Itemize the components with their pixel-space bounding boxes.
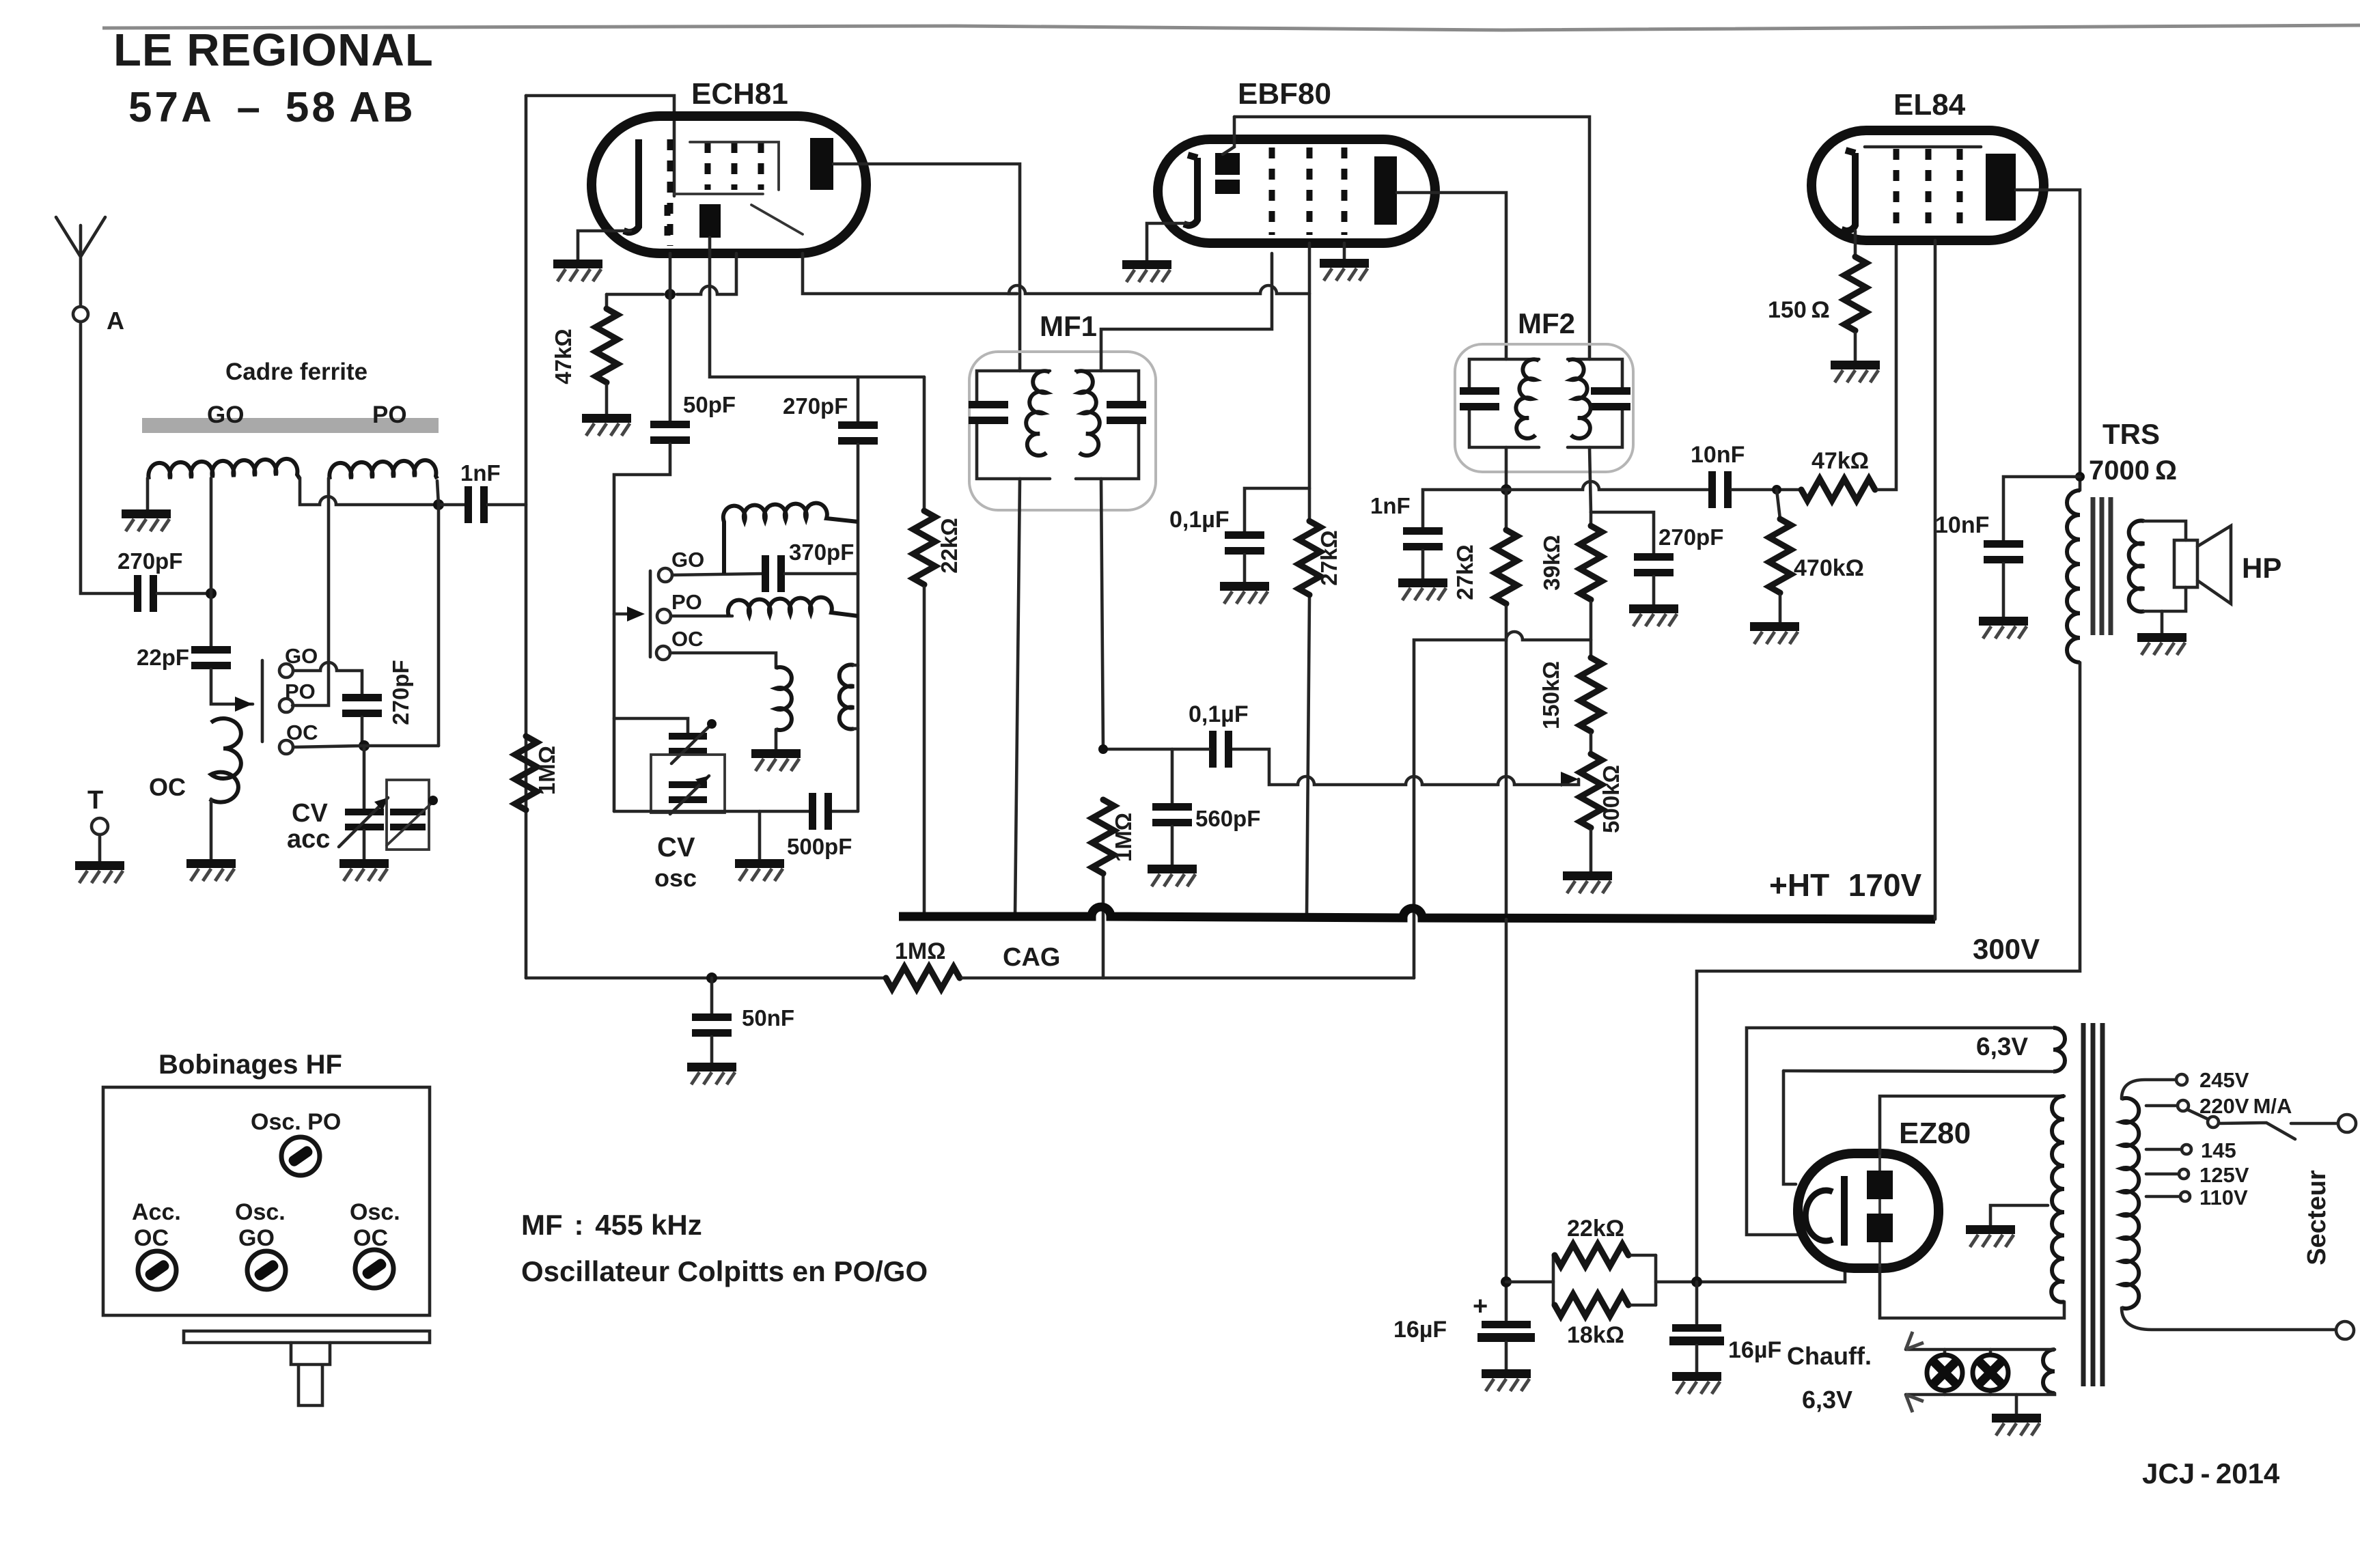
wire EL84 anode to TRS bbox=[2016, 190, 2080, 490]
wire to ground bbox=[2002, 563, 2005, 617]
wire +HT bus 170V bbox=[899, 907, 1935, 919]
trimmer Osc GO bbox=[247, 1251, 286, 1289]
svg-text:GO: GO bbox=[238, 1225, 275, 1251]
svg-text:300V: 300V bbox=[1973, 933, 2040, 965]
terminal GO (osc) bbox=[658, 568, 672, 582]
svg-text:1nF: 1nF bbox=[1370, 493, 1411, 518]
svg-text:+: + bbox=[1473, 1292, 1488, 1321]
wire 10nF tone tap bbox=[2003, 477, 2080, 540]
svg-text:TRS: TRS bbox=[2102, 418, 2160, 450]
svg-text:MF1: MF1 bbox=[1040, 310, 1097, 342]
svg-text:22kΩ: 22kΩ bbox=[1567, 1216, 1624, 1242]
svg-text:EZ80: EZ80 bbox=[1899, 1117, 1971, 1150]
ferrite bar bbox=[142, 418, 439, 433]
TRS core bbox=[2091, 497, 2096, 635]
svg-text:Osc.: Osc. bbox=[235, 1199, 286, 1225]
svg-text:27kΩ: 27kΩ bbox=[1316, 530, 1342, 586]
wire det line hop bbox=[1506, 481, 1708, 490]
capacitor 1nF (detector) bbox=[1403, 527, 1443, 550]
wire EL84 screen to HT bus bbox=[1934, 240, 1937, 919]
wire T to ground bbox=[98, 835, 102, 861]
chassis mounting plate bbox=[184, 1331, 430, 1343]
switch wiper arrow (band selector) bbox=[235, 697, 253, 712]
potentiometer 500kOhm bbox=[1589, 734, 1593, 754]
TRS secondary coil bbox=[2129, 521, 2144, 612]
wire EBF80 cathode to ground bbox=[1147, 223, 1189, 260]
svg-text:22pF: 22pF bbox=[137, 645, 189, 670]
wire MF2 primary bottom to junction bbox=[1505, 447, 1508, 490]
EL84 anode bbox=[1986, 154, 2016, 221]
svg-text:57A – 58 AB: 57A – 58 AB bbox=[128, 84, 416, 131]
trimmer Acc OC bbox=[138, 1251, 176, 1289]
svg-text:JCJ - 2014: JCJ - 2014 bbox=[2142, 1457, 2280, 1489]
wire 1nF top bbox=[1423, 490, 1506, 527]
ground (osc) bbox=[735, 859, 784, 881]
wire triode grid pin down to screen bus bbox=[803, 253, 1017, 294]
svg-text:OC: OC bbox=[353, 1225, 388, 1251]
resistor 150 Ohm (cathode) bbox=[1844, 257, 1866, 331]
ground (HV center tap) bbox=[1966, 1225, 2015, 1247]
ground (ECH81 cathode) bbox=[553, 260, 602, 281]
wire EZ80 heater leads to 6,3V loop bbox=[1747, 1028, 2053, 1235]
wire OC contact line bbox=[293, 746, 439, 747]
svg-text:MF : 455 kHz: MF : 455 kHz bbox=[521, 1209, 702, 1241]
tube EBF80 envelope bbox=[1158, 139, 1435, 243]
wire osc secondary to rail bbox=[854, 665, 858, 729]
ECH81 internal grid tie bar bbox=[674, 193, 763, 195]
ECH81 hexode anode bbox=[810, 138, 833, 190]
tap 245V bbox=[2122, 1080, 2176, 1099]
wire junction down to CV acc bbox=[363, 746, 366, 809]
wire secondary to speaker bbox=[2144, 521, 2186, 611]
antenna symbol bbox=[56, 217, 105, 305]
ECH81 screen grids (dashed) bbox=[705, 142, 711, 190]
svg-text:500kΩ: 500kΩ bbox=[1598, 765, 1624, 833]
contact PO bbox=[279, 699, 293, 712]
switch bar (osc section) bbox=[649, 571, 652, 657]
svg-text:10nF: 10nF bbox=[1691, 442, 1745, 468]
MF1 primary tank bbox=[969, 371, 1050, 479]
svg-text:OC: OC bbox=[134, 1225, 169, 1251]
wire EL84 cathode to 150R bbox=[1854, 231, 1857, 257]
svg-text:270pF: 270pF bbox=[388, 660, 413, 725]
svg-text:1MΩ: 1MΩ bbox=[534, 746, 559, 795]
tube EL84 envelope bbox=[1811, 130, 2044, 240]
svg-text:0,1µF: 0,1µF bbox=[1189, 701, 1249, 727]
svg-text:OC: OC bbox=[149, 773, 186, 801]
ground (TRS secondary) bbox=[2137, 633, 2187, 655]
svg-text:HP: HP bbox=[2242, 552, 2281, 584]
wire EBF80 diode bus to MF2 secondary bbox=[1234, 117, 1589, 359]
wire 270pF bottom to OC line junction bbox=[361, 717, 364, 744]
wire junction to 1nF bbox=[439, 503, 464, 507]
svg-text:Osc.: Osc. bbox=[350, 1199, 400, 1225]
Secteur terminal top bbox=[2338, 1115, 2356, 1132]
capacitor 270pF (osc anode) bbox=[838, 421, 878, 445]
ground (0,1uF screen) bbox=[1220, 582, 1269, 604]
svg-text:110V: 110V bbox=[2199, 1186, 2248, 1209]
capacitor 270pF (detector) bbox=[1634, 553, 1674, 576]
wire 270pF tap bbox=[857, 377, 860, 421]
capacitor 500pF bbox=[809, 793, 832, 830]
ground (270pF det) bbox=[1629, 604, 1678, 626]
wire volume wiper line with hops bbox=[1232, 749, 1579, 785]
ground (heater) bbox=[1992, 1414, 2041, 1436]
capacitor 22pF bbox=[191, 646, 231, 669]
wire GO term to 370pF bbox=[672, 574, 762, 575]
MF2 can outline bbox=[1455, 344, 1633, 472]
wire OC coil to ground bbox=[210, 799, 213, 859]
wire 1nF to left rail bbox=[488, 503, 526, 507]
wire GO center tap down bbox=[210, 478, 213, 646]
svg-text:CV: CV bbox=[657, 832, 695, 863]
node 50nF junction bbox=[706, 972, 717, 983]
coil osc PO bbox=[671, 615, 732, 618]
svg-text:A: A bbox=[107, 307, 124, 335]
wire 150R to ground bbox=[1854, 333, 1857, 361]
svg-text:Chauff.: Chauff. bbox=[1787, 1342, 1872, 1370]
svg-text:1MΩ: 1MΩ bbox=[895, 938, 946, 964]
wire PO left end down (to PO switch contact) bbox=[292, 478, 329, 705]
trimmer Osc PO bbox=[281, 1137, 320, 1175]
resistor 18kOhm (filter) bbox=[1555, 1294, 1628, 1316]
coil OC (antenna) bbox=[210, 718, 241, 802]
wire primary bottom to Secteur bbox=[2122, 1308, 2335, 1330]
speaker HP bbox=[2174, 540, 2197, 587]
wire antenna down bbox=[81, 322, 134, 593]
resistor 47kOhm (grid stopper) bbox=[1801, 479, 1875, 501]
coil osc GO bbox=[723, 503, 858, 574]
ground (47k) bbox=[582, 414, 631, 436]
resistor 1MOhm (CAG) bbox=[886, 967, 960, 989]
wire 6,3V winding return bbox=[1783, 1071, 2053, 1072]
wire MF1 primary bottom to HT bus bbox=[1015, 479, 1020, 916]
EBF80 cathode bbox=[1184, 155, 1197, 225]
transformer TRS primary coil bbox=[2067, 490, 2080, 662]
svg-text:0,1µF: 0,1µF bbox=[1169, 507, 1230, 533]
wire 370pF to right rail bbox=[785, 572, 858, 576]
svg-text:245V: 245V bbox=[2199, 1068, 2249, 1092]
wire 22pF to switch arrow bbox=[211, 669, 253, 704]
wire OC term to osc transformer bbox=[670, 653, 776, 668]
resistor 150kOhm bbox=[1580, 658, 1602, 731]
svg-text:PO: PO bbox=[372, 402, 407, 428]
wire 39k to 150k junction bbox=[1589, 602, 1593, 658]
capacitor 370pF bbox=[762, 555, 785, 592]
wire HT feed down to filter bbox=[1505, 919, 1508, 1320]
resistor 39kOhm bbox=[1589, 512, 1593, 526]
wire 50pF down, jog left, down to osc rail bbox=[614, 444, 670, 811]
svg-text:270pF: 270pF bbox=[783, 393, 848, 419]
wire 47k top / g1 node bbox=[607, 293, 663, 296]
svg-text:LE REGIONAL: LE REGIONAL bbox=[113, 25, 434, 76]
wire 50nF stem bbox=[710, 978, 714, 1013]
svg-text:270pF: 270pF bbox=[117, 548, 182, 574]
EZ80 center pin line bbox=[1878, 1153, 1881, 1268]
wire triode anode pin down to 22k feed bbox=[710, 238, 924, 377]
svg-text:27kΩ: 27kΩ bbox=[1452, 544, 1477, 600]
CV osc frame bbox=[651, 755, 725, 813]
wire to ground bbox=[1243, 555, 1247, 582]
ground (470k) bbox=[1750, 622, 1799, 644]
scan artifact top border line bbox=[102, 25, 2360, 30]
svg-text:Bobinages HF: Bobinages HF bbox=[158, 1050, 342, 1080]
EZ80 cathode arc bbox=[1805, 1190, 1833, 1241]
ECH81 screen top tie bbox=[690, 142, 779, 190]
variable capacitor CV osc (top) bbox=[614, 718, 717, 764]
svg-text:Cadre ferrite: Cadre ferrite bbox=[225, 359, 367, 385]
capacitor 10nF (AF coupling) bbox=[1708, 471, 1732, 508]
wire right riser (OC line to 1nF junction) bbox=[437, 505, 441, 746]
wire EZ80 top pin to HV winding bbox=[1880, 1096, 2064, 1153]
svg-text:MF2: MF2 bbox=[1518, 307, 1575, 339]
Secteur terminal bottom bbox=[2336, 1321, 2354, 1339]
lamp (dial) 2 bbox=[1989, 1349, 1993, 1395]
wire MF1 secondary bottom down to CAG bbox=[1101, 479, 1103, 978]
wire CAG line bbox=[526, 977, 886, 980]
ground (560pF) bbox=[1148, 865, 1197, 886]
EL84 grids (dashed) bbox=[1893, 149, 1900, 225]
resistor 1MOhm (left rail) bbox=[515, 736, 537, 810]
ground (500k) bbox=[1563, 871, 1612, 893]
transformer HV winding bbox=[2051, 1096, 2064, 1302]
resistor 1MOhm (AGC) bbox=[1092, 800, 1114, 873]
wire osc OC primary to ground bbox=[775, 729, 778, 749]
capacitor 50pF bbox=[650, 421, 690, 444]
switch M/A lever bbox=[2188, 1110, 2337, 1139]
tap 145 bbox=[2146, 1148, 2181, 1151]
tap 220V with M/A switch bbox=[2146, 1104, 2178, 1108]
ground (OC coil) bbox=[186, 859, 236, 881]
ECH81 grid1 (dashed) bbox=[667, 139, 674, 246]
svg-text:EBF80: EBF80 bbox=[1238, 77, 1331, 111]
svg-text:Secteur: Secteur bbox=[2303, 1170, 2331, 1265]
wire CV acc to ground bbox=[363, 830, 366, 859]
wire heater ground stem bbox=[2015, 1395, 2018, 1414]
ground (150R) bbox=[1831, 361, 1880, 382]
EBF80 diode plates bbox=[1215, 153, 1240, 175]
heater winding (Chauff) bbox=[2043, 1349, 2055, 1393]
wire filter to EZ80 cathode bbox=[1656, 1264, 1845, 1282]
ground (GO coil) bbox=[122, 509, 171, 531]
svg-text:GO: GO bbox=[285, 644, 318, 668]
wire to ground bbox=[1652, 576, 1656, 604]
wire MF1 secondary top to EBF80 grid bbox=[1101, 253, 1272, 371]
wire 1nF to ground bbox=[1421, 550, 1425, 578]
resistor 27kOhm (screen) bbox=[1299, 521, 1320, 595]
EBF80 top pin wire bbox=[1223, 117, 1234, 154]
wire 0,1uF to AGC node bbox=[1103, 748, 1209, 751]
ECH81 triode grid diagonal tie bbox=[751, 205, 803, 234]
resistor 47kOhm (osc grid leak) bbox=[605, 294, 609, 309]
wire ground stem osc bbox=[758, 811, 762, 859]
wire 470k to ground bbox=[1779, 596, 1782, 622]
wire TRS primary bottom to 300V bbox=[1697, 662, 2080, 1282]
trimmer Osc OC bbox=[355, 1250, 393, 1288]
wire osc right rail bbox=[857, 445, 860, 811]
switch bar bbox=[261, 660, 264, 742]
svg-text:osc: osc bbox=[654, 864, 697, 892]
terminal PO (osc) bbox=[657, 609, 671, 623]
wire GO right end down and right with hop bbox=[300, 478, 439, 505]
svg-text:T: T bbox=[87, 786, 103, 815]
ECH81 triode grid dash + anode bbox=[665, 205, 671, 236]
svg-text:6,3V: 6,3V bbox=[1802, 1386, 1852, 1414]
coil PO (cadre) bbox=[329, 460, 437, 479]
wire heater bottom bbox=[1906, 1393, 2055, 1395]
svg-text:470kΩ: 470kΩ bbox=[1794, 555, 1864, 581]
capacitor 1nF (antenna coupling) bbox=[464, 486, 488, 523]
switch wiper arrow (osc section) bbox=[614, 613, 627, 616]
wire heater top bbox=[1906, 1348, 2055, 1352]
transformer primary winding bbox=[2122, 1098, 2139, 1308]
EL84 cathode bbox=[1842, 150, 1855, 231]
node junction 1nF bbox=[433, 499, 444, 510]
tap 125V bbox=[2146, 1173, 2178, 1176]
wire 500k to ground bbox=[1589, 830, 1593, 871]
wire divider junction left and down to CAG bbox=[1414, 632, 1591, 978]
svg-text:16µF: 16µF bbox=[1728, 1337, 1781, 1363]
node A terminal bbox=[73, 307, 88, 322]
ground (T) bbox=[75, 861, 124, 883]
ground (EBF80 cathode) bbox=[1122, 260, 1171, 282]
svg-text:39kΩ: 39kΩ bbox=[1539, 535, 1564, 591]
ECH81 cathode bbox=[624, 139, 639, 232]
resistor 22kOhm (osc anode feed) bbox=[923, 377, 926, 511]
wire 270pF to GO tap bbox=[157, 592, 211, 596]
EBF80 grids (dashed) bbox=[1269, 148, 1275, 235]
EZ80 anode plates bbox=[1867, 1171, 1893, 1199]
svg-text:500pF: 500pF bbox=[787, 834, 852, 859]
svg-text:220V M/A: 220V M/A bbox=[2199, 1094, 2292, 1118]
MF1 secondary tank bbox=[1076, 371, 1146, 479]
tube ECH81 envelope bbox=[592, 116, 866, 253]
svg-text:CV: CV bbox=[292, 799, 328, 828]
capacitor 16uF (reservoir) bbox=[1695, 1282, 1699, 1324]
svg-text:145: 145 bbox=[2201, 1138, 2236, 1162]
svg-text:Osc. PO: Osc. PO bbox=[251, 1109, 341, 1135]
svg-text:1MΩ: 1MΩ bbox=[1111, 813, 1136, 862]
svg-text:Oscillateur Colpitts en PO/GO: Oscillateur Colpitts en PO/GO bbox=[521, 1255, 928, 1287]
EL84 g3 top tie bbox=[1865, 145, 1981, 149]
coil GO (cadre) bbox=[148, 459, 300, 479]
wire 50nF to ground bbox=[710, 1037, 714, 1063]
EBF80 anode bbox=[1374, 156, 1397, 225]
tube EZ80 envelope bbox=[1798, 1153, 1939, 1268]
wire 0,1uF screen decoupling tap bbox=[1245, 488, 1309, 531]
svg-text:370pF: 370pF bbox=[789, 540, 854, 565]
resistor 22kOhm (filter) bbox=[1553, 1255, 1656, 1305]
svg-text:Acc.: Acc. bbox=[132, 1199, 181, 1225]
capacitor 16uF (first filter) bbox=[1477, 1321, 1535, 1342]
svg-text:47kΩ: 47kΩ bbox=[1811, 448, 1869, 474]
wire EBF80 anode to MF2 bbox=[1397, 193, 1506, 359]
wire filter node bbox=[1506, 1280, 1553, 1284]
wire EBF80 screen pin down to 27k bbox=[1307, 243, 1309, 916]
svg-text:+HT 170V: +HT 170V bbox=[1769, 867, 1922, 903]
svg-text:150kΩ: 150kΩ bbox=[1538, 661, 1564, 729]
ground (16uF 2) bbox=[1672, 1372, 1721, 1394]
capacitor 270pF (padder) bbox=[342, 694, 382, 717]
Bobinages box bbox=[103, 1087, 430, 1315]
wire to ground bbox=[1505, 1342, 1508, 1369]
wire g1 node right with hop, up into tube (g2 pin) bbox=[677, 253, 736, 294]
wire GO coil left to ground bbox=[146, 478, 150, 509]
wire to ground bbox=[1695, 1345, 1699, 1372]
svg-text:6,3V: 6,3V bbox=[1976, 1033, 2028, 1061]
svg-text:560pF: 560pF bbox=[1195, 806, 1260, 831]
svg-text:18kΩ: 18kΩ bbox=[1567, 1322, 1624, 1348]
MF2 primary tank bbox=[1460, 359, 1539, 447]
wire EBF80 g3 to ground bbox=[1343, 243, 1346, 259]
terminal OC (osc) bbox=[656, 646, 670, 660]
svg-text:16µF: 16µF bbox=[1393, 1317, 1447, 1343]
wire g1 pin down bbox=[669, 253, 672, 421]
capacitor 0,1uF (AF coupling) bbox=[1209, 731, 1232, 768]
capacitor 50nF bbox=[692, 1013, 732, 1037]
svg-text:GO: GO bbox=[207, 402, 244, 428]
svg-text:50nF: 50nF bbox=[742, 1005, 794, 1031]
capacitor 560pF bbox=[1171, 749, 1174, 803]
svg-text:7000 Ω: 7000 Ω bbox=[2089, 456, 2177, 486]
ground (1nF) bbox=[1398, 578, 1447, 600]
contact OC bbox=[279, 740, 293, 754]
capacitor 0,1uF (screen) bbox=[1225, 531, 1264, 555]
wire secondary ground stem bbox=[2161, 611, 2164, 633]
svg-text:EL84: EL84 bbox=[1893, 88, 1966, 122]
coil osc OC secondary bbox=[839, 665, 854, 729]
wire PO coil right end down to junction bbox=[437, 481, 439, 505]
svg-text:OC: OC bbox=[286, 720, 318, 744]
ground (10nF tone) bbox=[1979, 617, 2028, 639]
capacitor 10nF (tone) bbox=[1984, 540, 2023, 563]
MF2 secondary tank bbox=[1568, 359, 1630, 447]
svg-text:125V: 125V bbox=[2199, 1163, 2249, 1187]
svg-text:270pF: 270pF bbox=[1658, 524, 1723, 550]
capacitor 270pF (antenna) bbox=[134, 575, 157, 612]
tap 110V bbox=[2146, 1195, 2180, 1199]
ground (EBF80 g3) bbox=[1320, 259, 1369, 281]
transformer core bbox=[2081, 1023, 2086, 1386]
wire osc bottom rail bbox=[614, 810, 858, 813]
ground (16uF 1) bbox=[1482, 1369, 1531, 1391]
svg-text:PO: PO bbox=[671, 590, 702, 614]
wire screen bus hop at MF1, hop at grid, join screen pin bbox=[1009, 285, 1309, 294]
variable capacitor CV osc (bottom) bbox=[669, 776, 709, 814]
svg-text:50pF: 50pF bbox=[683, 392, 736, 417]
resistor 470kOhm (grid leak) bbox=[1777, 490, 1780, 519]
wire ECH81 cathode to ground bbox=[578, 231, 630, 260]
wire MF2 secondary bottom with hop over det line bbox=[1589, 447, 1591, 512]
svg-text:OC: OC bbox=[671, 627, 704, 651]
svg-text:PO: PO bbox=[285, 680, 316, 703]
coil osc OC primary bbox=[776, 667, 792, 730]
svg-text:acc: acc bbox=[287, 825, 330, 854]
resistor 27kOhm (MF2 feed) bbox=[1505, 490, 1508, 530]
svg-text:150 Ω: 150 Ω bbox=[1768, 297, 1830, 323]
lamp (dial) 1 bbox=[1943, 1349, 1947, 1395]
ground (CV acc) bbox=[339, 859, 389, 881]
wire top to ECH81 grid3 bbox=[526, 96, 674, 196]
wire 10nF to 47k bbox=[1732, 488, 1801, 492]
variable capacitor CV acc (left gang) bbox=[339, 798, 388, 847]
wire left rail (antenna stage to CAG) bbox=[525, 96, 528, 978]
svg-text:1nF: 1nF bbox=[460, 460, 501, 486]
wire GO contact to 270pF cap with hop over PO wire bbox=[293, 662, 362, 694]
contact GO bbox=[279, 664, 293, 677]
svg-text:CAG: CAG bbox=[1003, 943, 1060, 972]
wire HV center tap to ground bbox=[1990, 1205, 2048, 1225]
